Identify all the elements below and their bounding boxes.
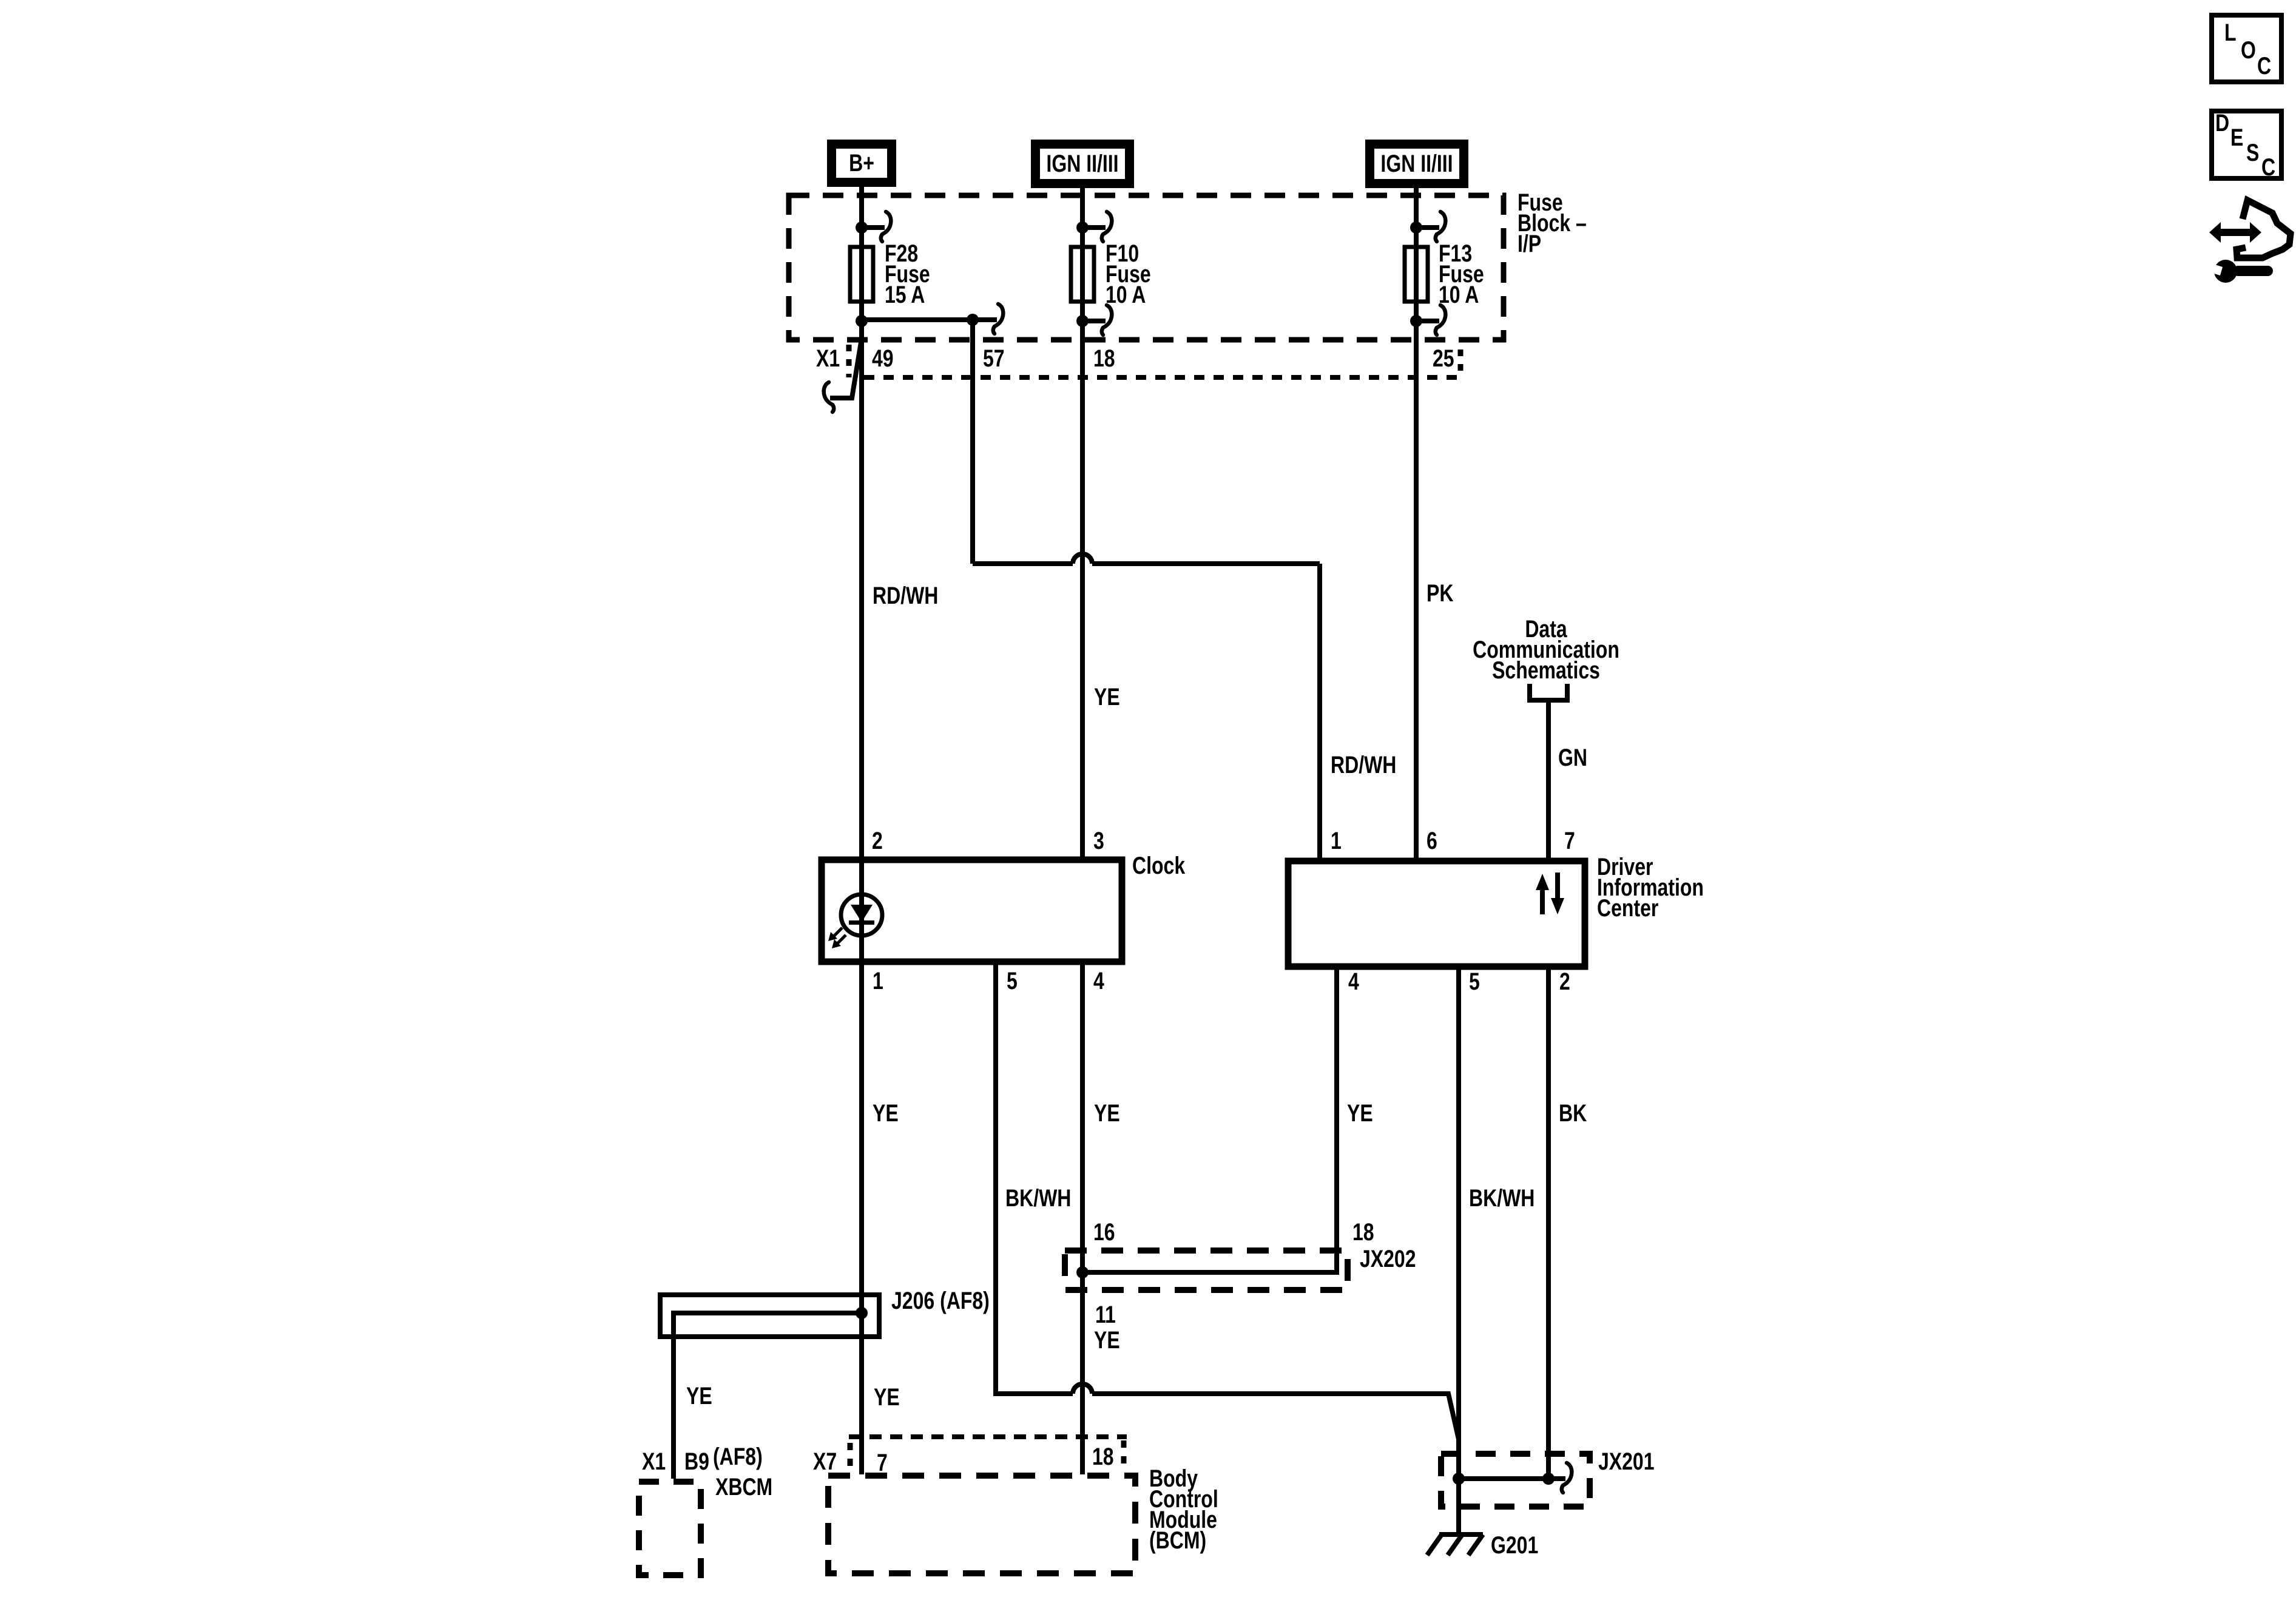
connector clip F13 top xyxy=(1436,212,1446,241)
svg-text:6: 6 xyxy=(1427,827,1437,854)
svg-text:16: 16 xyxy=(1093,1218,1115,1246)
node junction J206 splice xyxy=(856,1307,868,1319)
label RD/WH upper xyxy=(873,582,938,609)
svg-text:YE: YE xyxy=(1094,1099,1120,1127)
svg-text:15 A: 15 A xyxy=(885,281,925,308)
node junction F13 top xyxy=(1410,221,1422,234)
fuse block I/P dashed outline xyxy=(789,195,1504,340)
wire JX201 internal junction link with stub to clip xyxy=(1459,1476,1565,1481)
label GN xyxy=(1558,744,1587,771)
label (AF8) XBCM xyxy=(713,1443,763,1470)
Driver Information Center box xyxy=(1288,861,1585,967)
svg-text:2: 2 xyxy=(1559,968,1570,995)
module Body Control Module dashed outline xyxy=(828,1476,1135,1573)
label fuse F28 xyxy=(885,240,930,308)
svg-text:4: 4 xyxy=(1348,968,1359,995)
svg-text:10 A: 10 A xyxy=(1106,281,1146,308)
label IGN II/III left xyxy=(1046,150,1118,177)
label pin 49 xyxy=(872,345,894,372)
connector X1 left dotted bracket xyxy=(846,345,852,377)
label clock pin 2 xyxy=(872,827,883,854)
connector X1 right dotted bracket xyxy=(1458,349,1464,377)
label Clock xyxy=(1132,852,1186,879)
wire horizontal run 57 to DIC pin 1 with hop over F10 wire xyxy=(973,554,1320,564)
junction block JX201 dashed outline xyxy=(1441,1454,1590,1507)
label YE clock pin4 wire xyxy=(1094,1099,1120,1127)
wire X1 pin 49 slant stub to inline clip xyxy=(830,339,862,398)
wire pin 57 down to horizontal run xyxy=(970,320,975,564)
node junction pin 57 xyxy=(967,314,979,326)
svg-text:4: 4 xyxy=(1093,967,1104,994)
icon DESC box xyxy=(2212,111,2281,178)
svg-text:G201: G201 xyxy=(1491,1531,1538,1559)
fuse F13 10A xyxy=(1405,247,1428,302)
svg-text:(BCM): (BCM) xyxy=(1149,1527,1206,1554)
label J206 (AF8) xyxy=(891,1287,990,1314)
svg-text:B+: B+ xyxy=(849,149,874,177)
svg-text:1: 1 xyxy=(1331,827,1342,854)
svg-text:S: S xyxy=(2246,139,2259,166)
svg-text:5: 5 xyxy=(1469,968,1480,995)
svg-text:E: E xyxy=(2230,124,2243,151)
label JX201 xyxy=(1598,1448,1655,1475)
node junction F28 bottom xyxy=(856,315,868,327)
wire branch F28 output to fuse block pin 57 xyxy=(862,317,973,322)
svg-text:25: 25 xyxy=(1433,345,1454,372)
svg-text:J206 (AF8): J206 (AF8) xyxy=(891,1287,990,1314)
wire J206 internal: junction to left leg down to XBCM pin B9 xyxy=(674,1313,862,1479)
svg-text:RD/WH: RD/WH xyxy=(873,582,938,609)
wire IGN II/III feed PK: IGN box 2 to DIC pin 6 through F13 fuse xyxy=(1414,186,1419,858)
label BCM pin 7 xyxy=(877,1449,888,1476)
wire JX201 to ground G201 xyxy=(1456,1479,1461,1534)
label DIC pin 7 xyxy=(1564,827,1575,854)
svg-text:IGN II/III: IGN II/III xyxy=(1046,150,1118,177)
wire fuse F13 bottom stub to clip xyxy=(1416,319,1439,323)
svg-text:YE: YE xyxy=(686,1382,712,1409)
svg-text:7: 7 xyxy=(877,1449,888,1476)
node junction F28 top xyxy=(856,221,868,234)
label clock pin 5 xyxy=(1007,967,1018,994)
power feed box B+ xyxy=(827,140,896,187)
svg-text:YE: YE xyxy=(1347,1099,1373,1127)
connector clip F13 bottom xyxy=(1436,305,1446,335)
label connector X1 XBCM xyxy=(642,1448,666,1475)
connector clip JX201 xyxy=(1562,1463,1572,1493)
label YE F10 wire xyxy=(1094,683,1120,711)
label IGN II/III right xyxy=(1380,150,1453,177)
svg-text:YE: YE xyxy=(1094,1326,1120,1354)
label YE clock pin1 wire xyxy=(873,1099,899,1127)
svg-text:XBCM: XBCM xyxy=(715,1473,772,1501)
svg-text:GN: GN xyxy=(1558,744,1587,771)
svg-text:11: 11 xyxy=(1095,1301,1116,1328)
icon arrow outline shape xyxy=(2237,200,2291,258)
connector clip F10 top xyxy=(1102,212,1112,241)
label pin B9 xyxy=(684,1448,709,1475)
wire Clock pin 5 BK/WH down then right to JX201, hop over YE wire, slant merge xyxy=(996,965,1459,1439)
label RD/WH lower xyxy=(1331,751,1396,778)
label XBCM xyxy=(715,1473,772,1501)
svg-text:O: O xyxy=(2241,36,2256,64)
label B+ xyxy=(849,149,874,177)
icon wrench xyxy=(2203,260,2273,283)
svg-text:X7: X7 xyxy=(813,1448,837,1475)
label DIC pin 4 bottom xyxy=(1348,968,1359,995)
svg-text:JX201: JX201 xyxy=(1598,1448,1655,1475)
label pin 18 fuse block xyxy=(1093,345,1115,372)
label connector X7 xyxy=(813,1448,837,1475)
svg-text:Clock: Clock xyxy=(1132,852,1186,879)
svg-text:PK: PK xyxy=(1427,579,1453,607)
wire B+ feed RD/WH: B+ box to Clock pin 2 through F28, continuing to BCM pin 7 xyxy=(859,187,864,1474)
wire RD/WH down to DIC pin 1 xyxy=(1317,564,1322,858)
connector X7 left dotted bracket xyxy=(848,1443,853,1471)
svg-text:7: 7 xyxy=(1564,827,1575,854)
node junction F10 bottom xyxy=(1076,315,1089,327)
label BK/WH clock pin5 wire xyxy=(1005,1184,1071,1212)
node junction JX201 splice left xyxy=(1453,1473,1465,1485)
wire fuse F10 top stub to clip xyxy=(1082,225,1106,230)
label JX202 pin 18 xyxy=(1352,1218,1374,1246)
wire stub pin 57 to clip xyxy=(973,317,997,322)
label DIC pin 1 xyxy=(1331,827,1342,854)
module XBCM dashed outline xyxy=(639,1482,701,1575)
label BK/WH DIC pin5 wire xyxy=(1469,1184,1535,1212)
wire Clock pin 4 YE down to JX202 junction continuing to BCM pin 18 xyxy=(1080,965,1085,1474)
label Body Control Module (BCM) xyxy=(1149,1465,1218,1554)
junction block JX202 dashed outline xyxy=(1065,1251,1348,1290)
wire GN from Data Communication bracket to DIC pin 7 xyxy=(1546,703,1551,858)
connector clip X1 pin 49 stub (mirrored) xyxy=(824,382,834,412)
label Data Communication Schematics xyxy=(1473,615,1619,684)
label Fuse Block I/P xyxy=(1518,189,1587,257)
power feed box IGN II/III left xyxy=(1031,140,1134,188)
svg-text:Schematics: Schematics xyxy=(1492,657,1600,684)
svg-text:RD/WH: RD/WH xyxy=(1331,751,1396,778)
svg-text:18: 18 xyxy=(1092,1443,1114,1470)
ground symbol G201 xyxy=(1427,1534,1483,1555)
label DESC letters xyxy=(2215,109,2275,181)
svg-text:L: L xyxy=(2224,19,2237,46)
label BK DIC pin2 wire xyxy=(1559,1099,1587,1127)
label pin 25 xyxy=(1433,345,1454,372)
SHAPES xyxy=(856,221,1555,1485)
svg-text:3: 3 xyxy=(1093,827,1104,854)
label YE XBCM wire xyxy=(686,1382,712,1409)
svg-text:49: 49 xyxy=(872,345,894,372)
label clock pin 1 xyxy=(873,967,883,994)
power feed box IGN II/III right xyxy=(1365,140,1468,188)
svg-text:57: 57 xyxy=(983,345,1005,372)
svg-text:JX202: JX202 xyxy=(1360,1245,1416,1272)
connector clip F28 top xyxy=(881,212,891,241)
fuse F28 15A xyxy=(850,247,873,302)
label fuse F13 xyxy=(1439,240,1484,308)
label DIC pin 6 xyxy=(1427,827,1437,854)
wire DIC pin 5 BK/WH down to JX201 junction xyxy=(1456,970,1461,1479)
label DIC pin 2 bottom xyxy=(1559,968,1570,995)
connector clip pin 57 xyxy=(993,304,1004,334)
label LOC letters xyxy=(2224,19,2271,79)
wire DIC pin 4 YE down into JX202 then left to junction xyxy=(1082,970,1337,1272)
svg-text:BK/WH: BK/WH xyxy=(1005,1184,1071,1212)
node junction JX202 splice xyxy=(1076,1266,1089,1278)
svg-text:B9: B9 xyxy=(684,1448,709,1475)
label YE pin 11 wire xyxy=(1094,1326,1120,1354)
connector row X1 dotted line xyxy=(864,375,1458,380)
label JX202 pin 16 xyxy=(1093,1218,1115,1246)
svg-text:C: C xyxy=(2261,154,2275,181)
DIC up/down arrows symbol xyxy=(1536,873,1564,914)
Clock module box xyxy=(822,860,1122,962)
svg-text:BK: BK xyxy=(1559,1099,1587,1127)
svg-text:I/P: I/P xyxy=(1518,230,1541,257)
svg-text:IGN II/III: IGN II/III xyxy=(1380,150,1453,177)
label DIC pin 5 bottom xyxy=(1469,968,1480,995)
svg-text:BK/WH: BK/WH xyxy=(1469,1184,1535,1212)
splice pack J206 (AF8) xyxy=(660,1295,879,1337)
svg-text:18: 18 xyxy=(1352,1218,1374,1246)
svg-text:X1: X1 xyxy=(642,1448,666,1475)
svg-text:C: C xyxy=(2257,52,2271,79)
svg-text:(AF8): (AF8) xyxy=(713,1443,763,1470)
node junction F13 bottom xyxy=(1410,315,1422,327)
label pin 11 xyxy=(1095,1301,1116,1328)
svg-text:10 A: 10 A xyxy=(1439,281,1479,308)
LED / light sensor symbol in clock xyxy=(828,894,882,948)
icon LOC box xyxy=(2212,15,2281,82)
label connector X1 xyxy=(816,345,840,372)
svg-text:18: 18 xyxy=(1093,345,1115,372)
wire fuse F28 top stub to clip xyxy=(862,225,885,230)
node junction JX201 splice right xyxy=(1542,1473,1555,1485)
connector clip F10 bottom xyxy=(1102,305,1112,335)
label YE DIC pin4 wire xyxy=(1347,1099,1373,1127)
svg-text:5: 5 xyxy=(1007,967,1018,994)
wire fuse F13 top stub to clip xyxy=(1416,225,1439,230)
label Driver Information Center xyxy=(1597,853,1704,922)
label BCM pin 18 xyxy=(1092,1443,1114,1470)
svg-text:X1: X1 xyxy=(816,345,840,372)
svg-text:Center: Center xyxy=(1597,894,1658,922)
fuse F10 10A xyxy=(1071,247,1094,302)
label fuse F10 xyxy=(1106,240,1151,308)
label JX202 xyxy=(1360,1245,1416,1272)
svg-text:1: 1 xyxy=(873,967,883,994)
svg-text:YE: YE xyxy=(874,1383,900,1411)
label PK xyxy=(1427,579,1453,607)
node junction F10 top xyxy=(1076,221,1089,234)
icon adjust arrow double-headed xyxy=(2209,222,2261,243)
connector row X7 dotted line xyxy=(849,1434,1127,1439)
wire DIC pin 2 BK down to JX201 junction xyxy=(1546,970,1551,1479)
label pin 57 xyxy=(983,345,1005,372)
label clock pin 4 xyxy=(1093,967,1104,994)
svg-text:D: D xyxy=(2215,109,2229,137)
label G201 xyxy=(1491,1531,1538,1559)
wire IGN II/III feed: IGN box to Clock pin 3 through F10 fuse xyxy=(1080,186,1085,857)
wire fuse F10 bottom stub to clip xyxy=(1082,319,1106,323)
connector X7 right dotted bracket xyxy=(1121,1440,1127,1471)
label YE BCM pin7 wire xyxy=(874,1383,900,1411)
svg-text:YE: YE xyxy=(873,1099,899,1127)
label clock pin 3 xyxy=(1093,827,1104,854)
svg-text:YE: YE xyxy=(1094,683,1120,711)
off-page connector bracket Data Communication Schematics xyxy=(1530,684,1567,700)
svg-text:2: 2 xyxy=(872,827,883,854)
